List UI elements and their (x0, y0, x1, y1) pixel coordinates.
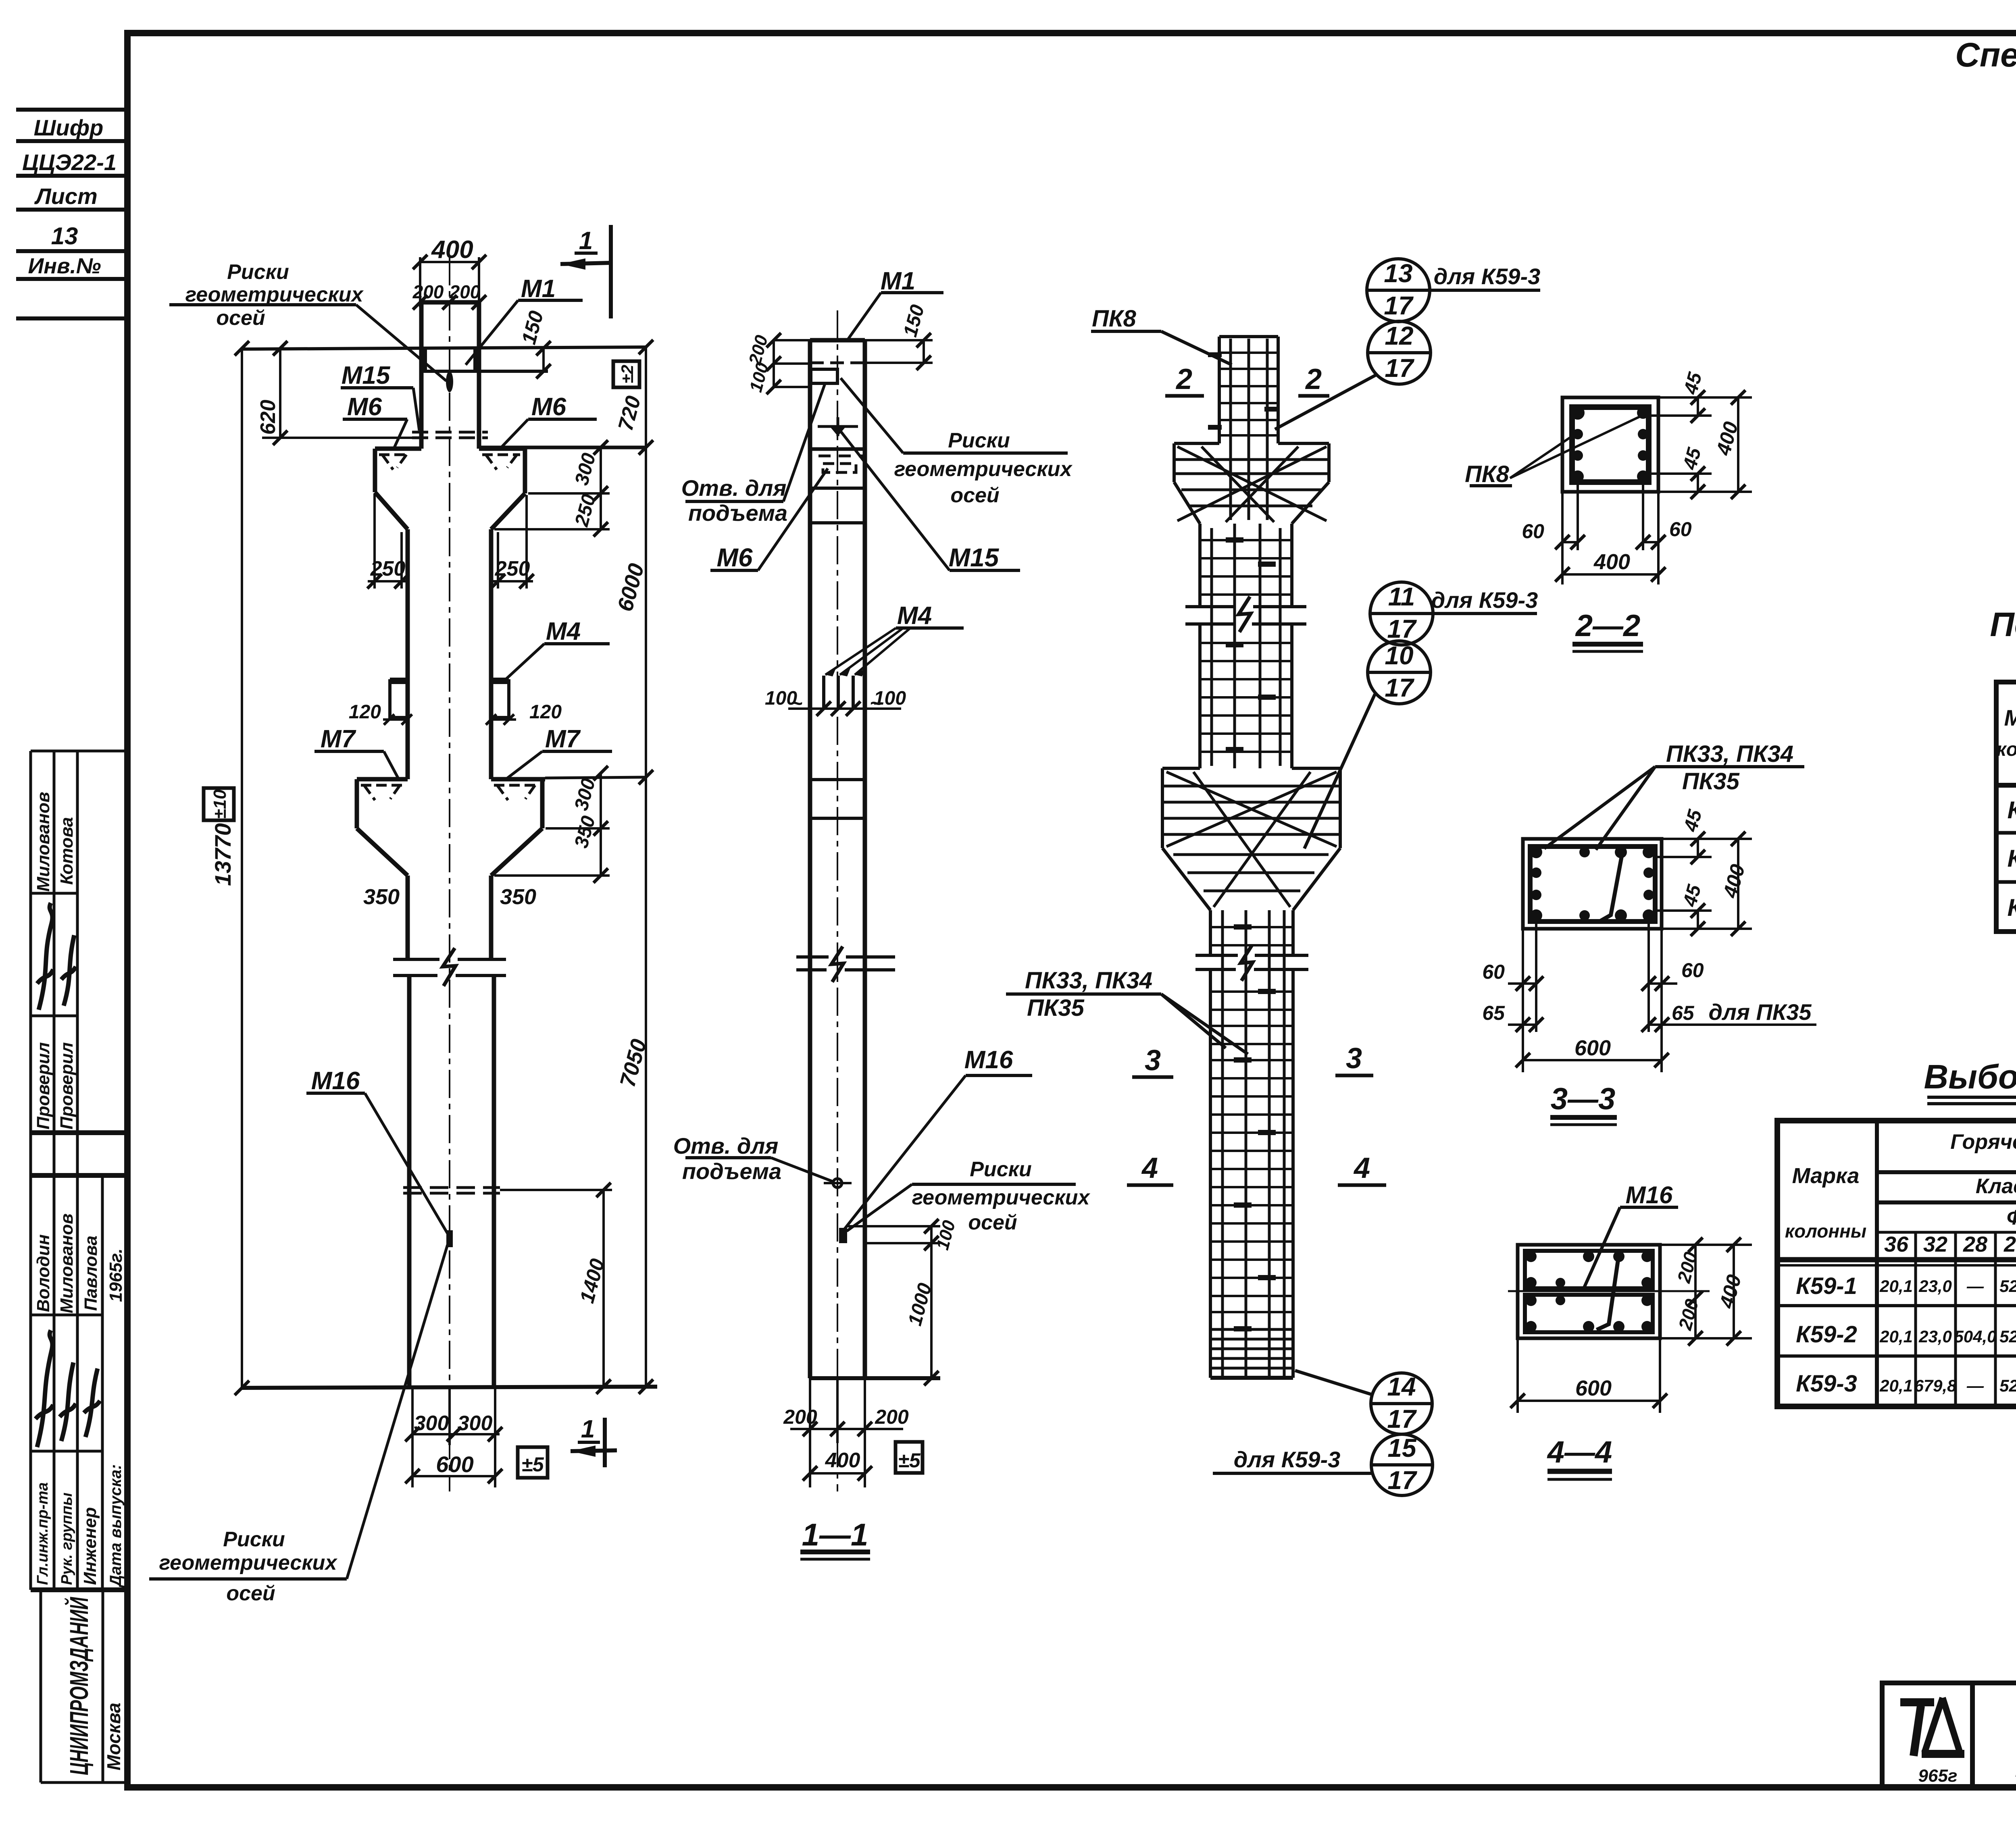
svg-text:±10: ±10 (210, 789, 230, 819)
console2 tapers (357, 828, 408, 876)
section mark top (609, 225, 613, 318)
svg-text:14: 14 (1387, 1372, 1416, 1401)
column 1 texts (159, 227, 652, 1605)
stirrups lower shaft (1210, 927, 1293, 1312)
svg-text:геометрических: геометрических (159, 1551, 338, 1575)
svg-text:Риски: Риски (227, 260, 289, 284)
console anchors (dashed) (379, 455, 409, 470)
break2 (1195, 954, 1308, 957)
dims right (1649, 390, 1752, 499)
svg-text:подъема: подъема (682, 1159, 781, 1184)
svg-text:17: 17 (1387, 1404, 1417, 1433)
dims left/bottom (1508, 921, 1816, 1072)
longitudinal bars mid shaft (1212, 524, 1280, 768)
1-1 label underline (800, 1550, 870, 1554)
dashed riska line (810, 362, 865, 364)
svg-text:4—4: 4—4 (1547, 1435, 1612, 1469)
svg-text:Володин: Володин (33, 1234, 53, 1312)
svg-text:М16: М16 (964, 1046, 1013, 1074)
svg-text:К59-1: К59-1 (2008, 797, 2016, 824)
svg-text:Милованов: Милованов (57, 1213, 77, 1313)
svg-text:350: 350 (500, 885, 536, 909)
stirrups mid shaft (1200, 540, 1292, 752)
svg-text:ПК8: ПК8 (1092, 306, 1136, 332)
dashed joint lines (412, 431, 488, 434)
plus-minus 5 box (518, 1447, 548, 1478)
svg-text:17: 17 (1385, 673, 1415, 702)
150 dim right (923, 340, 925, 363)
svg-text:ПК33, ПК34: ПК33, ПК34 (1666, 741, 1793, 767)
svg-text:М6: М6 (347, 393, 382, 421)
svg-text:60: 60 (1522, 520, 1544, 543)
svg-text:Шифр: Шифр (34, 115, 104, 140)
svg-text:15: 15 (1387, 1433, 1417, 1462)
svg-text:12: 12 (1385, 321, 1413, 350)
svg-text:32: 32 (1923, 1232, 1947, 1256)
svg-text:К59-2: К59-2 (1796, 1321, 1857, 1348)
svg-text:52,4: 52,4 (1999, 1376, 2016, 1395)
1400 dim (602, 1190, 605, 1387)
svg-text:60: 60 (1681, 959, 1704, 982)
svg-text:965г: 965г (1918, 1766, 1958, 1786)
lift hole circle (833, 1179, 842, 1188)
svg-text:М4: М4 (897, 602, 932, 630)
svg-text:2: 2 (1175, 363, 1192, 395)
svg-text:М16: М16 (311, 1067, 360, 1095)
svg-text:36: 36 (1884, 1232, 1909, 1256)
M4 plate verticals (822, 676, 825, 709)
centerline (449, 257, 450, 1491)
svg-text:ПК33, ПК34: ПК33, ПК34 (1025, 967, 1152, 994)
svg-text:М15: М15 (342, 362, 391, 389)
svg-text:250: 250 (495, 557, 530, 580)
svg-text:504,0: 504,0 (1954, 1327, 1996, 1346)
break (796, 955, 895, 959)
600 dim (412, 1475, 495, 1477)
svg-text:65: 65 (1482, 1002, 1505, 1024)
black square mark (839, 1228, 847, 1243)
svg-text:Горячекатаная арматурная ста: Горячекатаная арматурная сталь (1950, 1130, 2016, 1154)
svg-text:17: 17 (1385, 354, 1415, 383)
svg-text:~: ~ (790, 692, 802, 715)
svg-text:Гл.инж.пр-та: Гл.инж.пр-та (34, 1482, 51, 1585)
svg-text:Риски: Риски (223, 1528, 285, 1551)
svg-text:52,4: 52,4 (1999, 1327, 2016, 1346)
console1 tapers (375, 492, 408, 529)
svg-text:Спецификация марок арматурны: Спецификация марок арматурных (1955, 36, 2016, 74)
svg-text:2: 2 (1305, 363, 1322, 395)
svg-text:К59-3: К59-3 (2008, 894, 2016, 921)
svg-text:17: 17 (1384, 291, 1414, 320)
svg-text:23,0: 23,0 (1918, 1327, 1952, 1346)
svg-text:400: 400 (1593, 550, 1630, 574)
svg-text:11: 11 (1388, 582, 1415, 611)
svg-text:М1: М1 (521, 275, 556, 303)
dims right (1655, 832, 1752, 936)
svg-text:осей: осей (216, 306, 265, 330)
13770 dim line (241, 348, 243, 1388)
verticals (1875, 1121, 1879, 1406)
svg-text:20,1: 20,1 (1879, 1376, 1913, 1395)
outer right dim line (645, 347, 647, 1387)
svg-text:60: 60 (1482, 961, 1505, 983)
svg-text:17: 17 (1387, 1466, 1418, 1495)
svg-text:60: 60 (1669, 518, 1692, 541)
svg-text:400: 400 (431, 236, 473, 264)
svg-text:геометрических: геометрических (185, 283, 364, 306)
console2 sides (355, 779, 359, 828)
svg-text:Лист: Лист (34, 183, 98, 209)
svg-text:М15: М15 (949, 543, 1000, 572)
plus-minus 10 box (204, 788, 234, 820)
bottom riska dashes (403, 1186, 500, 1189)
svg-text:3: 3 (1346, 1042, 1362, 1075)
TD logo (1900, 1698, 1964, 1786)
svg-text:Рук. группы: Рук. группы (58, 1493, 75, 1585)
svg-text:ПК35: ПК35 (1027, 995, 1085, 1021)
svg-text:М7: М7 (321, 725, 356, 753)
svg-text:—: — (1966, 1376, 1984, 1395)
svg-text:600: 600 (1574, 1036, 1611, 1060)
dims right (1660, 1238, 1752, 1346)
svg-text:осей: осей (226, 1582, 275, 1605)
dims bottom (1510, 1338, 1667, 1413)
svg-text:Ф, мм: Ф, мм (2007, 1206, 2016, 1229)
svg-text:~: ~ (870, 692, 882, 715)
PK8 label top (1025, 306, 1152, 1021)
hole rect (811, 369, 837, 383)
Otv top label leader (685, 500, 783, 503)
console2 (1162, 767, 1200, 770)
break1 (1185, 605, 1306, 608)
svg-text:1: 1 (581, 1415, 595, 1443)
svg-text:Павлова: Павлова (81, 1235, 101, 1311)
vertical (long) lines (29, 751, 32, 1590)
svg-text:М6: М6 (717, 543, 753, 572)
svg-text:17: 17 (1387, 614, 1417, 643)
svg-text:К59-2: К59-2 (2008, 845, 2016, 872)
svg-text:679,8: 679,8 (1914, 1376, 1957, 1395)
bottom ext lines (411, 1388, 414, 1487)
circled marks (1213, 259, 1540, 1495)
300 300 dim (412, 1433, 500, 1435)
bottom (810, 1376, 940, 1380)
leaders M6 M15 riski (710, 569, 758, 572)
svg-text:Москва: Москва (103, 1703, 124, 1770)
svg-text:Риски: Риски (970, 1158, 1032, 1181)
svg-text:М7: М7 (545, 725, 581, 753)
svg-text:осей: осей (968, 1211, 1017, 1234)
triangle mark (830, 426, 846, 436)
svg-text:600: 600 (436, 1452, 473, 1477)
svg-text:М1: М1 (881, 267, 915, 295)
label above + leaders (1544, 767, 1804, 850)
outline (1218, 337, 1221, 443)
svg-text:М6: М6 (531, 393, 566, 421)
svg-text:ПК35: ПК35 (1682, 768, 1740, 795)
svg-text:Инженер: Инженер (80, 1507, 100, 1585)
stirrups top shaft (1219, 353, 1278, 435)
svg-text:ЦНИИПРОМЗДАНИЙ: ЦНИИПРОМЗДАНИЙ (64, 1597, 94, 1775)
svg-text:подъема: подъема (688, 500, 787, 526)
svg-text:25: 25 (2004, 1232, 2016, 1256)
Otv dlya podyema bottom label leader (685, 1156, 771, 1159)
riska dot (446, 371, 453, 392)
svg-text:К59-1: К59-1 (1796, 1273, 1857, 1299)
svg-text:300: 300 (414, 1412, 449, 1435)
svg-text:3: 3 (1145, 1044, 1161, 1077)
column outline top shaft (419, 302, 424, 449)
longitudinal bars lower shaft (1223, 910, 1284, 1377)
120 dims (383, 718, 408, 721)
svg-text:для К59-3: для К59-3 (1234, 1447, 1341, 1472)
svg-text:13770: 13770 (210, 823, 235, 886)
svg-text:для К59-3: для К59-3 (1431, 587, 1538, 613)
longitudinal bars top shaft (1231, 339, 1267, 520)
bottom face (241, 1387, 657, 1388)
svg-text:52,4: 52,4 (1999, 1277, 2016, 1296)
svg-text:4: 4 (1353, 1152, 1370, 1184)
svg-text:Отв. для: Отв. для (673, 1133, 779, 1159)
M1 plates (filled) (421, 349, 427, 371)
svg-text:Класс А - Ш: Класс А - Ш (1976, 1175, 2016, 1198)
svg-text:3—3: 3—3 (1551, 1082, 1616, 1116)
plus-minus 2 box (613, 361, 639, 387)
break symbol (393, 958, 506, 961)
svg-text:400: 400 (825, 1449, 860, 1472)
svg-text:Проверил: Проверил (33, 1042, 53, 1129)
console1 ledges (375, 447, 421, 451)
horizontals (1877, 1170, 2016, 1174)
svg-text:М4: М4 (546, 618, 581, 645)
console1 sides (373, 449, 377, 492)
svg-text:13: 13 (1384, 259, 1412, 288)
svg-text:120: 120 (349, 701, 381, 723)
console2 ledges (357, 777, 408, 782)
shaft below console2 (406, 876, 410, 959)
150 dim (536, 341, 551, 379)
svg-text:М16: М16 (1626, 1181, 1673, 1208)
svg-text:600: 600 (1575, 1376, 1612, 1400)
svg-text:±2: ±2 (618, 365, 637, 383)
svg-text:200: 200 (875, 1406, 909, 1428)
svg-text:2—2: 2—2 (1575, 609, 1641, 643)
svg-text:300: 300 (458, 1412, 493, 1435)
400 dim top (413, 255, 486, 310)
leader lines (169, 303, 356, 306)
joint lines (810, 778, 865, 781)
M16 mark (446, 1230, 453, 1247)
M16 leader (966, 1074, 1032, 1077)
svg-text:Марка: Марка (2004, 705, 2016, 730)
right inner dim chain console1 (600, 447, 602, 529)
section mark bottom (603, 1418, 607, 1467)
M4 leaders with arrows (896, 626, 964, 630)
svg-text:13: 13 (51, 223, 78, 250)
svg-text:4: 4 (1141, 1152, 1158, 1184)
left 200/100 dims (773, 340, 775, 387)
svg-text:350: 350 (363, 885, 400, 909)
svg-text:120: 120 (529, 701, 562, 723)
M4 plates (390, 681, 408, 718)
svg-text:20,1: 20,1 (1879, 1327, 1913, 1346)
svg-text:колонны: колонны (1996, 739, 2016, 760)
svg-text:250: 250 (370, 557, 406, 580)
svg-text:1: 1 (579, 227, 593, 255)
svg-text:геометрических: геометрических (894, 458, 1073, 481)
svg-text:ПК8: ПК8 (1465, 461, 1509, 487)
black tick marks on bars (1208, 352, 1278, 1331)
right inner dim chain console2 (600, 773, 602, 876)
svg-text:±5: ±5 (521, 1453, 544, 1476)
svg-text:колонны: колонны (1785, 1221, 1866, 1242)
svg-text:геометрических: геометрических (912, 1186, 1091, 1209)
svg-text:Риски: Риски (948, 429, 1010, 452)
M16 label (1584, 1207, 1678, 1288)
svg-text:для К59-3: для К59-3 (1434, 264, 1541, 289)
M1 plate lines (242, 347, 646, 349)
250 250 dims below console1 (373, 494, 376, 589)
joint + hole dashed (810, 447, 865, 451)
svg-text:20,1: 20,1 (1879, 1277, 1913, 1296)
svg-text:осей: осей (950, 484, 999, 507)
svg-text:Отв. для: Отв. для (681, 475, 787, 501)
console1 fill: diagonals + stirrups (1174, 447, 1329, 522)
shaft between consoles (406, 529, 410, 779)
svg-text:28: 28 (1963, 1232, 1987, 1256)
svg-text:23,0: 23,0 (1918, 1277, 1952, 1296)
svg-text:65: 65 (1672, 1002, 1695, 1024)
svg-text:К59-3: К59-3 (1796, 1371, 1857, 1397)
svg-text:для ПК35: для ПК35 (1709, 999, 1812, 1025)
svg-text:200: 200 (783, 1406, 817, 1428)
riski bottom leader (912, 1183, 1076, 1186)
console2 anchors (361, 785, 403, 800)
svg-text:Милованов: Милованов (33, 792, 53, 892)
dims bottom (1555, 482, 1666, 584)
svg-text:1965г.: 1965г. (106, 1248, 126, 1302)
svg-text:Дата выпуска:: Дата выпуска: (107, 1464, 125, 1588)
svg-text:ЦЦЭ22-1: ЦЦЭ22-1 (22, 150, 117, 175)
M1 leader (881, 291, 943, 294)
100/1000 dims right (847, 1225, 940, 1227)
svg-text:Котова: Котова (57, 817, 77, 885)
620 dim line (279, 348, 281, 438)
svg-text:620: 620 (256, 400, 280, 435)
svg-text:1—1: 1—1 (802, 1517, 868, 1552)
section cut labels on col3 (1141, 363, 1370, 1184)
console2 fill (1162, 772, 1340, 907)
dense mesh at bottom (1210, 1329, 1293, 1368)
svg-text:—: — (1966, 1277, 1984, 1296)
svg-text:±5: ±5 (898, 1449, 921, 1472)
svg-text:Проверил: Проверил (57, 1042, 77, 1129)
svg-text:Инв.№: Инв.№ (28, 254, 101, 278)
svg-text:10: 10 (1385, 641, 1413, 670)
svg-text:Выборка стали на одну ко: Выборка стали на одну колонну, кг (1924, 1058, 2016, 1096)
svg-text:200: 200 (412, 281, 444, 302)
svg-text:Показатели на одну колонну: Показатели на одну колонну (1990, 605, 2016, 643)
svg-text:Марка: Марка (1792, 1164, 1860, 1188)
